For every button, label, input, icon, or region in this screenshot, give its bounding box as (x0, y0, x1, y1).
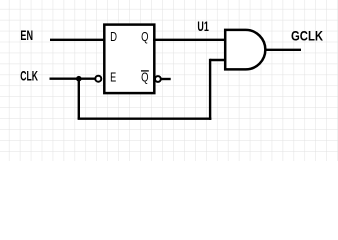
junction on CLK wire (76, 76, 82, 82)
and gate U1 (225, 30, 265, 70)
pin Qbar (141, 70, 149, 85)
svg-text:D: D (110, 29, 117, 44)
wire Q to AND upper input (153, 39, 226, 41)
svg-text:GCLK: GCLK (291, 28, 323, 44)
wire to AND lower input (210, 59, 226, 61)
wire EN to D input (50, 39, 106, 41)
svg-text:Q: Q (141, 29, 148, 44)
svg-text:EN: EN (20, 27, 33, 43)
svg-text:U1: U1 (197, 18, 209, 34)
bubble on E input (95, 76, 101, 82)
bubble on Qbar output (155, 76, 161, 82)
svg-text:Q: Q (141, 70, 148, 85)
svg-text:E: E (110, 69, 116, 84)
wire right vertical up (209, 59, 211, 120)
svg-text:CLK: CLK (20, 68, 38, 84)
wire CLK to E bubble (50, 77, 96, 79)
wire AND output (265, 49, 301, 51)
wire bottom horizontal (78, 117, 212, 119)
wire junction down (78, 79, 80, 119)
latch body (104, 25, 154, 94)
wire Qbar stub (161, 78, 171, 80)
